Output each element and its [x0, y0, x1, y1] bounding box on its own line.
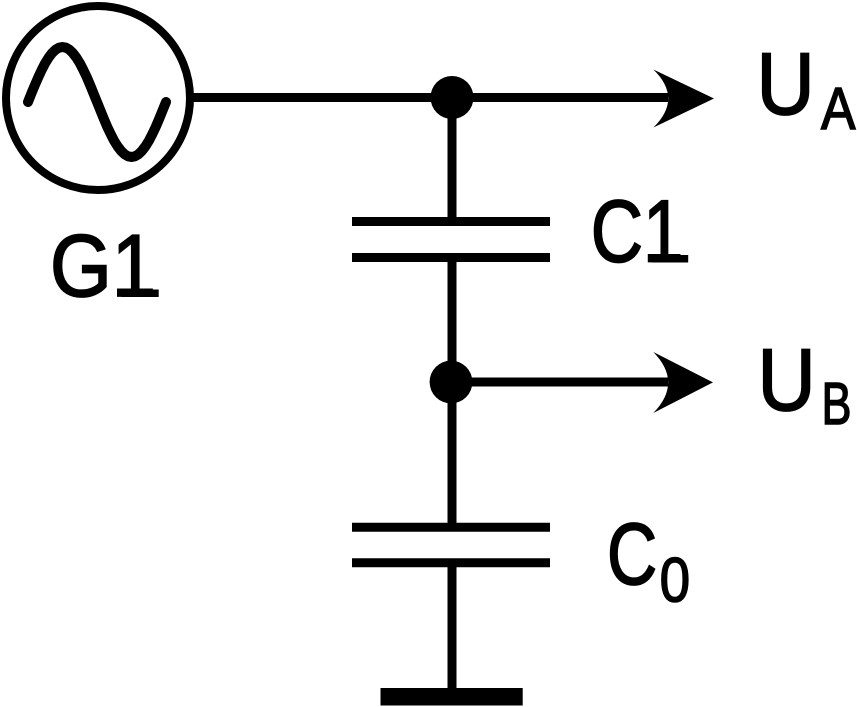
svg-text:B: B [822, 371, 852, 437]
svg-text:0: 0 [660, 546, 691, 616]
svg-text:U: U [758, 330, 816, 429]
svg-text:C1: C1 [591, 182, 684, 281]
svg-text:G1: G1 [50, 216, 156, 315]
svg-text:C: C [607, 505, 657, 603]
svg-text:A: A [821, 76, 856, 142]
svg-text:U: U [757, 34, 815, 133]
